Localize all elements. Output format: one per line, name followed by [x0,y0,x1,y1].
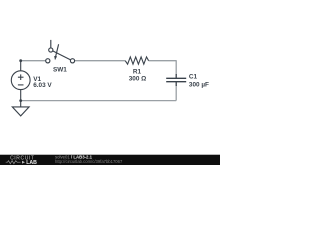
label V1 [33,76,41,83]
label C1 [189,74,198,81]
capacitor C1 [166,74,186,86]
wire SW1 right terminal to R1 left lead [75,60,125,62]
voltage source V1 [11,61,30,101]
CircuitLab logo [6,156,37,166]
svg-text:C1: C1 [189,74,198,81]
svg-text:LAB: LAB [26,160,37,165]
resistor R1 [125,57,148,64]
caption bar [0,154,220,165]
wire top-left horizontal (V1 node to SW1 left terminal) [21,60,46,62]
svg-text:6.03 V: 6.03 V [33,82,52,89]
label C1 value 300 µF [189,82,209,89]
caption url text [55,159,123,164]
svg-text:300 µF: 300 µF [189,82,209,89]
wire right vertical upper (corner down to C1 top) [175,60,177,74]
wire right vertical lower (C1 bottom down to bottom wire) [175,86,177,101]
node junction bottom-left [19,99,22,102]
label R1 [133,69,142,76]
label SW1 [53,67,67,74]
svg-text:R1: R1 [133,69,142,76]
label V1 value 6.03 V [33,82,52,89]
ground [12,101,29,116]
node junction top-left [19,59,22,62]
svg-text:http://circuitlab.com/c/39fa7b: http://circuitlab.com/c/39fa7bb17067 [55,159,123,164]
caption title text [55,155,93,160]
label R1 value 300 Ω [129,76,147,83]
svg-text:SW1: SW1 [53,67,67,74]
wire bottom horizontal [21,100,177,102]
wire R1 right lead to top-right corner [149,60,177,62]
svg-text:300 Ω: 300 Ω [129,76,147,83]
switch SW1 [46,40,75,63]
